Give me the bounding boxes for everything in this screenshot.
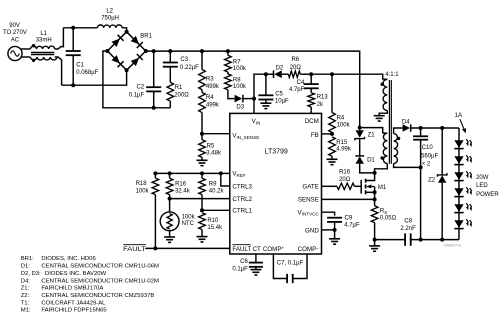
resistor R8 [225,74,232,90]
node VIN_SENSE junction [200,132,204,136]
svg-text:× 2: × 2 [422,162,431,168]
wire COMP+ to C7 [273,254,287,279]
zener Z2 [437,173,447,240]
capacitor C3 labels [180,57,199,71]
capacitor C1 wire bottom [72,55,74,85]
diode D3 label [236,105,244,111]
svg-text:4.7µF: 4.7µF [344,222,360,228]
capacitor C7 label [277,261,304,267]
U1 pin label CTRL2 [232,196,252,203]
diode D1 label [367,157,375,163]
svg-text:4.99k: 4.99k [336,147,352,153]
wire CTRL2 node to NTC [169,199,171,212]
svg-text:NTC: NTC [182,221,195,227]
wire VREF row [155,172,229,174]
resistor R16 20 labels [339,169,351,183]
svg-text:R3: R3 [206,77,214,83]
capacitor C5 wire top [265,74,267,95]
svg-text:10µF: 10µF [275,98,289,104]
svg-text:0.068µF: 0.068µF [76,70,98,76]
node RS bottom junction [373,238,377,242]
transistor M1 body diode arrow [366,185,374,189]
U1 pin label COMP- [298,245,320,253]
svg-text:FAIRCHILD FDPF15N65: FAIRCHILD FDPF15N65 [41,308,107,314]
svg-text:33mH: 33mH [36,38,52,44]
svg-text:FB: FB [311,132,319,139]
svg-text:CTRL2: CTRL2 [232,196,252,203]
svg-text:R15: R15 [336,140,348,146]
diode D2 [274,70,282,78]
wire rail to R3 [201,51,203,69]
bridge rectifier BR1 label [140,33,152,39]
wire C3 to R1 [169,67,171,83]
inductor L1 polarity dot top [32,44,35,47]
svg-text:C4: C4 [297,80,305,86]
wire D3 to VIN node [243,98,254,100]
U1 label LT3799 [265,148,288,155]
inductor L2 coil [97,25,122,28]
svg-text:100k: 100k [233,66,247,72]
bridge BR1 diode top-right [131,36,143,48]
svg-text:20W: 20W [476,175,489,181]
U1 pin label GND [305,227,319,234]
wire R13 to DCM pin [310,107,312,113]
node GND junction [333,228,337,232]
svg-text:Z1:: Z1: [21,286,30,292]
transformer T1 ratio label [385,72,399,78]
wire FAULT row [145,247,230,249]
wire R18 to FAULT row [154,195,156,249]
svg-text:FAIRCHILD SMBJ170A: FAIRCHILD SMBJ170A [41,286,103,292]
wire output rail to Z2 [441,128,443,175]
U1 pin label VREF [232,171,246,178]
svg-text:750µH: 750µH [101,16,119,22]
AC source V1 90V-270V labels [3,23,27,44]
transformer T1 core [389,80,391,164]
wire CT pin to C6 [255,254,257,263]
parts list [21,256,159,314]
svg-text:Z2: Z2 [428,177,436,183]
node SENSE junction [373,197,377,201]
U1 pin label FAULT [232,245,251,253]
capacitor C10 labels [421,145,438,167]
wire CTRL3 jog [221,173,230,186]
svg-text:COILCRAFT JA4429-AL: COILCRAFT JA4429-AL [41,300,106,306]
capacitor C7 [287,274,293,283]
bridge BR1 diode bottom-right [131,54,143,66]
capacitor C1 labels [76,63,98,77]
wire C4 to R13 [310,88,312,92]
svg-text:R1: R1 [175,85,183,91]
svg-text:BR1: BR1 [140,33,152,39]
svg-text:C3: C3 [180,57,188,63]
svg-text:COMP+: COMP+ [263,245,285,253]
capacitor C5 labels [275,91,289,104]
wire node to R5 [201,134,203,140]
transistor M1 gate bar [360,180,362,194]
svg-text:2.2nF: 2.2nF [400,226,416,232]
transformer T1 aux winding [383,79,387,110]
svg-text:DIODES INC. BAV20W: DIODES INC. BAV20W [45,271,107,277]
wire aux rail to transformer [311,74,387,79]
svg-text:40.2k: 40.2k [209,189,225,195]
ground below R10 [197,237,208,242]
svg-text:R10: R10 [207,218,219,224]
capacitor C6 labels [232,259,248,272]
wire AC hot to L1 top [20,48,30,50]
node secondary return junction [419,165,423,169]
node R18 top [153,171,157,175]
node BR1 left corner [105,49,109,53]
wire GATE pin to R16 [322,185,338,187]
wire LED string [458,140,460,239]
ground below C5 [260,103,271,108]
diode D2 label [276,65,284,71]
svg-text:COMP–: COMP– [298,245,320,253]
node BR1 right corner [144,49,148,53]
svg-text:RS: RS [380,209,387,215]
wire node to Z1 [359,128,361,131]
svg-text:20Ω: 20Ω [339,177,351,183]
resistor R6 [288,71,300,77]
wire D1 to drain node [360,164,375,173]
svg-text:D1: D1 [367,157,375,163]
wire R7 to R8 [227,72,229,74]
node C2 bottom junction [152,106,156,110]
U1 pin label COMP+ [263,245,285,253]
transistor M1 drain lead [366,173,375,181]
wire VREF to R9 [201,173,203,178]
svg-text:FAULT: FAULT [123,246,146,253]
ground below R15 [327,159,338,164]
node C1 bottom junction [71,83,75,87]
resistor R9 labels [209,182,225,195]
capacitor C9 labels [344,216,360,229]
transformer T1 secondary polarity dot [397,137,400,140]
bridge BR1 diode bottom-left [112,55,124,67]
zener Z1 [355,130,365,140]
svg-text:C10: C10 [422,145,434,151]
capacitor C3 [163,63,178,67]
svg-text:C8: C8 [404,219,412,225]
svg-text:AC: AC [11,38,20,44]
wire C5 node to D2 [266,73,274,75]
svg-text:CENTRAL SEMICONDUCTOR CMR1U-02: CENTRAL SEMICONDUCTOR CMR1U-02M [41,278,159,284]
svg-text:LT3799: LT3799 [265,148,288,155]
node C1 top junction [71,26,75,30]
wire D2 to R6 [282,73,288,75]
resistor R5 [199,140,206,157]
capacitor C3 wire top [169,51,171,62]
node R3 top junction [200,49,204,53]
wire C9 to GND node [334,222,336,230]
svg-text:200Ω: 200Ω [174,93,189,99]
wire GND node to ground [334,230,336,239]
inductor L2 labels [101,9,119,22]
svg-text:R16: R16 [175,182,187,188]
svg-text:CTRL1: CTRL1 [232,208,252,215]
svg-text:100k: 100k [136,189,150,195]
node C10 bottom junction [419,238,423,242]
transformer T1 primary winding [383,133,387,163]
node BR1 top corner [125,30,129,34]
resistor R16 32.4k labels [175,182,191,195]
svg-text:SENSE: SENSE [298,197,319,204]
U1 pin label VIN_SENSE [232,133,259,140]
wire node to VIN pin [253,99,255,114]
resistor R16 32.4k [166,178,173,194]
svg-text:CENTRAL SEMICONDUCTOR CMR1U-06: CENTRAL SEMICONDUCTOR CMR1U-06M [41,264,159,270]
ground below RS [369,246,380,251]
wire SENSE pin to source [322,198,375,200]
node R7 top junction [226,49,230,53]
node CTRL2 junction [168,197,172,201]
wire R5 to ground [201,157,203,160]
node Z1 top junction [358,126,362,130]
wire VIN_SENSE to IC [202,133,230,135]
resistor R3 labels [206,77,220,90]
node R9 top [200,171,204,175]
svg-text:90V: 90V [9,23,20,29]
svg-text:15.4k: 15.4k [207,225,223,231]
svg-text:4:1:1: 4:1:1 [385,72,399,78]
resistor R4 100k labels [337,116,351,129]
wire CTRL1 row [202,209,230,211]
svg-text:R13: R13 [317,95,329,101]
resistor R18 [152,178,159,194]
wire C7 to COMP- [293,254,307,279]
wire R1 bottom [169,101,171,108]
transistor M1 channel segments [365,179,367,195]
svg-text:L1: L1 [40,31,47,37]
svg-text:R4: R4 [337,116,345,122]
wire FB pin [322,133,333,135]
zener Z2 label [428,177,436,183]
bridge BR1 diode top-left [112,35,124,47]
wire RS node to ground [374,240,376,246]
transistor M1 source lead [366,187,375,200]
svg-text:CTRL3: CTRL3 [232,183,252,190]
resistor R15 labels [336,140,352,153]
svg-text:D1:: D1: [21,264,31,270]
node CTRL1 junction [200,208,204,212]
zener Z1 label [368,133,376,139]
ground below GND pin [329,239,340,244]
wire aux rail to R4 100k [331,74,333,112]
node CTRL3 branch [219,171,223,175]
capacitor C1 [66,51,81,55]
svg-text:POWER: POWER [476,192,499,198]
wire CTRL2 row [170,198,230,200]
svg-text:2k: 2k [317,102,324,108]
wire Z1 to D1 [359,139,361,156]
transformer T1 aux polarity dot [381,83,384,86]
svg-text:C7, 0.1µF: C7, 0.1µF [277,261,304,267]
U1 pin label SENSE [298,197,319,204]
capacitor C1 wire top [72,28,74,51]
inductor L1 labels [36,31,52,43]
svg-text:D4: D4 [402,119,410,125]
current label 1A [455,112,464,119]
svg-text:LED: LED [476,183,488,189]
capacitor C4 labels [289,80,305,93]
svg-text:3.48k: 3.48k [206,151,222,157]
wire secondary top to D4 [394,128,403,134]
node C3 top junction [168,49,172,53]
wire rail to R7 [227,51,229,55]
transistor M1 label [378,185,387,191]
capacitor C10 [413,136,428,139]
node R4 100k top junction [330,72,334,76]
svg-text:BR1:: BR1: [21,256,34,262]
thermistor NTC labels [182,215,196,228]
svg-text:0.22µF: 0.22µF [180,65,199,71]
diode D1 [355,156,364,164]
node Z2 bottom junction [440,238,444,242]
U1 pin label CT [253,246,261,253]
wire VIN node up to aux rail [254,74,266,98]
resistor RS labels [380,209,397,222]
svg-text:D2, D3:: D2, D3: [21,271,41,277]
transformer T1 primary polarity dot [381,156,384,159]
svg-text:0.1µF: 0.1µF [232,266,248,272]
node M1 drain junction [373,171,377,175]
svg-text:C2: C2 [137,85,145,91]
wire DC+ rail [146,51,360,128]
svg-text:Z1: Z1 [368,133,376,139]
svg-text:560µF: 560µF [421,153,438,159]
node BR1 bottom corner [125,68,129,72]
diode D4 label [402,119,410,125]
resistor R1 [167,82,174,101]
U1 pin label DCM [305,118,319,125]
bridge BR1 diamond [107,32,145,70]
node Z2 top junction [440,126,444,130]
wire VREF to R18 [154,173,156,178]
svg-text:C5: C5 [275,91,283,97]
wire LED string top [458,128,460,140]
wire source to RS [374,199,376,205]
svg-text:T1:: T1: [21,300,30,306]
wire top rail to L2 [63,27,97,29]
U1 pin label GATE [302,184,318,191]
resistor R13 labels [317,95,329,109]
svg-text:D2: D2 [276,65,284,71]
resistor R1 labels [174,85,189,98]
diode D4 [403,124,411,131]
resistor R7 [225,55,232,72]
wire R15 to ground [331,156,333,159]
ground below NTC [164,237,175,242]
svg-text:D4:: D4: [21,278,31,284]
svg-text:0.05Ω: 0.05Ω [380,216,397,222]
U1 pin label FB [311,132,319,139]
svg-text:R9: R9 [209,182,217,188]
node C10 top junction [419,126,423,130]
resistor R9 [199,178,206,194]
capacitor C5 stem [265,100,267,104]
resistor RS [371,206,378,223]
wire AC neutral to L1 bottom [21,56,30,58]
LED string D5-D10 (6 LEDs) [454,139,472,228]
thermistor NTC 100k [160,212,179,231]
node FB junction [330,132,334,136]
svg-text:DN490 F01: DN490 F01 [444,244,461,248]
node C5 top junction [264,72,268,76]
capacitor C6 stem [255,267,257,270]
svg-text:0.1µF: 0.1µF [129,92,145,98]
capacitor C4 [304,84,319,88]
node VIN junction [252,97,256,101]
wire secondary bottom [394,164,421,168]
resistor R5 labels [206,143,222,156]
resistor R3 [199,70,206,90]
capacitor C6 [249,263,263,267]
svg-text:R18: R18 [136,181,148,187]
svg-text:R4: R4 [206,95,214,101]
wire L1 bottom to AC return rail [55,57,62,85]
wire R6 to C4 node [300,73,311,75]
svg-text:100k: 100k [233,84,247,90]
svg-text:32.4k: 32.4k [175,189,191,195]
svg-text:CT: CT [253,246,261,253]
inductor L1 bottom winding [30,57,57,60]
wire L1 top to top rail [55,28,64,49]
capacitor C10 wire top [420,128,422,136]
svg-text:FAULT: FAULT [232,246,251,253]
wire primary top [360,128,388,134]
svg-text:D3: D3 [236,105,244,111]
resistor R16 20 [337,183,355,189]
svg-text:Z2:: Z2: [21,293,30,299]
wire bridge negative to DC- bus [103,51,170,108]
wire L2 to bridge top [122,28,127,32]
wire aux bottom to ground [379,111,387,116]
svg-text:DIODES, INC. HD06: DIODES, INC. HD06 [41,256,96,262]
wire R16 to CTRL2 node [169,195,171,199]
svg-text:C6: C6 [240,259,248,265]
wire AC return rail [62,70,127,85]
net label FAULT [123,245,146,253]
node FAULT R18 junction [153,246,157,250]
wire NTC to ground [169,231,171,237]
wire primary bottom to drain [375,164,388,173]
node C4 top junction [309,72,313,76]
svg-text:R7: R7 [233,59,241,65]
capacitor C10 wire bottom [420,140,422,239]
ground below C6 [250,270,261,275]
node R16 top [168,171,172,175]
svg-text:499k: 499k [206,103,220,109]
wire VREF to R16 [169,173,171,178]
ground below aux winding [374,116,385,121]
svg-text:GATE: GATE [302,184,318,191]
resistor R4 499k [199,92,206,112]
svg-text:100k: 100k [337,122,351,128]
capacitor C5 [258,95,273,99]
resistor R13 [308,93,315,107]
capacitor C8 labels [400,219,416,232]
AC source symbol [8,46,22,60]
svg-text:R6: R6 [291,57,299,63]
resistor R8 labels [233,78,247,90]
current arrow 1A [460,119,466,133]
wire bottom rail right [411,239,459,241]
node C2 top junction [152,49,156,53]
capacitor C2 [146,87,161,91]
svg-text:100k: 100k [182,215,196,221]
svg-text:4.7pF: 4.7pF [289,87,305,93]
